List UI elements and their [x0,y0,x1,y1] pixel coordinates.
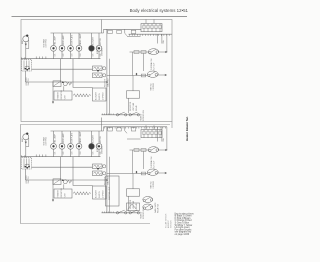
svg-text:4: 4 [36,57,37,59]
wire S1 out with arrowb [159,149,168,151]
svg-text:MOTOR: MOTOR [100,136,102,143]
svg-text:30A FEED: 30A FEED [107,78,110,87]
labels relay rows (lower) [154,202,160,213]
svg-text:LIGHTING: LIGHTING [46,38,48,47]
wire mid feedb [32,166,93,168]
fuse hanging FH3 [131,30,136,33]
earth bus wireb [21,155,101,156]
wire S4 out with arrowb [158,172,167,174]
svg-text:HEATER: HEATER [57,91,60,99]
fuse F8 [141,74,145,77]
relay oval row 2 (lower) [143,204,153,210]
relay K1b [93,164,106,169]
svg-text:SCREEN SW: SCREEN SW [143,110,145,121]
svg-text:HEATER: HEATER [57,189,60,197]
lamp/motor M4 [76,33,82,59]
wire mid feed [32,68,93,70]
node junction J1b [97,168,99,170]
battery B1 [21,34,29,44]
wire drop D1 [60,59,62,83]
contact tick on busb [125,127,127,134]
svg-text:UNIT FAN: UNIT FAN [132,102,135,111]
resistor chain R5b [73,192,91,195]
svg-text:on page 12•50: on page 12•50 [175,234,190,236]
svg-text:SIDE LAMP: SIDE LAMP [62,133,65,143]
fuse F8b [141,172,145,175]
relay cluster RL3b [53,179,72,189]
wire step feeder [103,29,105,33]
svg-text:G/5: G/5 [93,54,95,57]
wire bottom feed [102,113,140,114]
svg-text:SWITCH: SWITCH [28,176,30,184]
switch S5b [116,210,127,214]
switch S6b [129,210,140,214]
lamp/motor M5 [89,33,95,59]
svg-text:G/2: G/2 [63,54,65,57]
wire main vertical trunk [106,29,108,115]
svg-text:NUM PLATE: NUM PLATE [71,34,74,45]
wire stub with arrow (to heated rear window)b [52,180,54,202]
junction dot on trunkb [106,179,108,181]
switch S1 (in relay oval) [148,49,158,55]
switch S5 [116,112,127,116]
wire battery to ignition switchb [25,140,27,158]
wire battery loop [26,40,29,48]
wire step feederb [103,127,105,131]
fuse hanging FH3b [131,128,136,131]
switch S1 (in relay oval)b [148,147,158,153]
svg-text:4: 4 [42,57,43,59]
fusebox F [141,19,162,31]
fuse hanging FH2 [117,30,122,33]
svg-text:BLOWER: BLOWER [93,37,95,45]
fuse hanging FH2b [117,128,122,131]
relay K2 [93,73,106,78]
wire feeder from frame topb [101,118,103,132]
wire fuse drop FD3b [166,127,168,150]
lamp/motor M3 [68,33,74,59]
svg-text:BLOWER: BLOWER [93,135,95,143]
bus wire 1 (lamp feed) [51,32,104,34]
wire fuse drop FD1 [157,34,159,43]
wire fuse drop FD3 [166,34,168,52]
upper frame right border stub [171,122,173,129]
lamp/motor M3b [68,131,74,157]
wire feeder from frame top [101,20,103,34]
lamp/motor M1 [51,33,57,59]
svg-text:4: 4 [42,155,43,157]
svg-text:G/5: G/5 [93,152,95,155]
component box U2 (blower switch) [93,88,107,101]
wire return trunk [108,59,110,115]
svg-text:SWITCH: SWITCH [99,92,101,100]
wire ignition switch to node Ab [26,169,107,180]
svg-text:G/1: G/1 [55,152,57,155]
ignition switch S0b (hatched box) [22,158,32,170]
svg-text:BRN/GRN: BRN/GRN [97,143,99,152]
svg-text:4: 4 [36,155,37,157]
relay K1 [93,66,106,71]
svg-text:4: 4 [39,57,40,59]
wire relay feed [107,75,147,77]
lamp/motor M1b [51,131,57,157]
svg-text:G/4: G/4 [80,54,82,57]
fuse row F7b [130,149,150,152]
lamp/motor M5b [89,131,95,157]
junction dot on trunk [106,81,108,83]
fusebox Fb [141,125,162,137]
battery B1b [21,132,29,142]
fuse hanging FH1b [108,128,113,131]
junction tick J2 [136,73,138,76]
relay box K3b [127,174,140,212]
svg-text:G/2: G/2 [63,152,65,155]
switch S4 (in relay oval)b [147,169,158,175]
svg-text:PANEL LAMP: PANEL LAMP [79,33,82,45]
wire main vertical trunkb [106,127,108,213]
wire fuse drop FD2b [161,127,163,142]
svg-text:4: 4 [39,155,40,157]
arrowhead on battery feed [25,44,27,46]
svg-text:Heater blower fan: Heater blower fan [185,117,189,141]
wire drop F7 to feedb [142,151,144,169]
bus gauge labelsb [36,155,47,157]
wire drop to relay feedb [131,150,133,174]
svg-text:CUT OUT: CUT OUT [154,160,156,169]
wire S4 out with arrow [158,74,167,76]
upper diagram frame [21,20,172,122]
wire stub with arrow (to heated rear window) [52,82,54,104]
svg-text:TAIL LAMP: TAIL LAMP [54,35,57,45]
wire drop D1b [60,157,62,181]
legend key text [175,212,195,236]
svg-text:LIGHTING: LIGHTING [46,136,48,145]
wire branch at 36.5b [127,138,141,140]
svg-text:2 SPEED: 2 SPEED [153,82,155,90]
svg-text:RESISTOR: RESISTOR [61,89,63,99]
svg-text:G/3: G/3 [72,54,74,57]
fuse row F7 [130,51,150,54]
wire bottom feedb [102,211,140,212]
component box U1 (heater blower resistor) [54,89,72,100]
switch S4 (in relay oval) [147,71,158,77]
component box U2b (blower switch) [93,186,107,199]
svg-text:RESISTOR: RESISTOR [130,101,132,111]
wire S1 out with arrow [159,51,168,53]
component box U1b (heater blower resistor) [54,187,72,198]
heater control unit box (lower) [106,176,120,206]
relay oval row 1 (lower) [143,197,153,203]
svg-text:4 SPEED: 4 SPEED [103,92,105,100]
wire return trunkb [108,157,110,213]
wire drop D2b [73,157,93,186]
wire drop D2 [73,59,93,88]
switch contact blobb [25,164,30,168]
fuse hanging FH1 [108,30,113,33]
node junction J1 [97,70,99,72]
svg-text:4 SPEED: 4 SPEED [103,190,105,198]
lower diagram frame [21,125,171,224]
svg-text:SWITCH: SWITCH [28,78,30,86]
wire battery loopb [26,138,29,146]
svg-text:G/3: G/3 [72,152,74,155]
svg-text:NUM PLATE: NUM PLATE [71,132,74,143]
earth bus wire [21,57,101,58]
bus wire 1b (fuse feed) [104,28,142,30]
wire ignition switch to node A [26,71,107,82]
bus gauge labels [36,57,47,59]
switch S6 [129,112,140,116]
svg-text:G/4: G/4 [80,152,82,155]
ignition switch S0 (hatched box) [22,60,32,72]
svg-text:RESISTOR: RESISTOR [61,187,63,197]
svg-text:TAIL LAMP: TAIL LAMP [54,133,57,143]
wire fuse drop FD1b [157,127,159,142]
ticked fuse busb [105,127,166,129]
svg-text:GRN/BLK: GRN/BLK [102,145,104,154]
contact tick on bus [125,29,127,36]
resistor chain R5 [73,94,91,97]
svg-text:SENSOR: SENSOR [171,220,173,228]
svg-text:30A FEED: 30A FEED [107,176,110,185]
svg-text:RED/WHT: RED/WHT [105,78,107,87]
svg-text:BLOWER: BLOWER [96,190,98,198]
wire drop to relay feed [131,52,133,76]
relay box K3 [127,76,140,114]
header rule [12,16,188,18]
wire drop F7 to feed [142,53,144,71]
svg-text:MOTOR: MOTOR [100,38,102,45]
switch contact blob [25,66,30,70]
svg-text:RELAY: RELAY [135,104,138,111]
svg-text:4: 4 [45,155,46,157]
relay cluster RL3 [53,81,72,91]
svg-text:CUT OUT: CUT OUT [154,62,156,71]
relay K2b [93,171,106,176]
svg-text:G/1: G/1 [55,54,57,57]
wire battery to ignition switch [25,42,27,60]
svg-text:4: 4 [45,57,46,59]
svg-text:SIDE LAMP: SIDE LAMP [62,35,65,45]
lamp/motor M6 [96,33,102,59]
svg-text:SWITCH: SWITCH [99,190,101,198]
lamp/motor M2 [59,33,65,59]
lamp/motor M4b [76,131,82,157]
svg-text:RELAY SW: RELAY SW [157,204,160,213]
arrowhead on battery feedb [25,142,27,144]
svg-text:2 SPEED: 2 SPEED [153,180,155,188]
svg-text:CONTROL UNIT: CONTROL UNIT [109,186,111,200]
junction tick J2b [136,171,138,174]
bus wire 1b (fuse feed)b [104,126,168,128]
svg-text:GRN/BLK: GRN/BLK [102,47,104,56]
wire branch at 36.5 [127,36,141,38]
bus wire 1 (lamp feed)b [51,130,104,132]
svg-text:PANEL LAMP: PANEL LAMP [79,131,82,143]
lamp/motor M2b [59,131,65,157]
svg-text:Body electrical systems 12•51: Body electrical systems 12•51 [130,8,189,13]
svg-text:BLOWER: BLOWER [96,92,98,100]
ticked fuse bus [129,34,173,36]
lamp/motor M6b [96,131,102,157]
svg-text:BRN/GRN: BRN/GRN [97,45,99,54]
wire relay feedb [107,173,147,175]
wire fuse drop FD2 [161,34,163,43]
relay row 2 box (lower) [127,203,140,211]
